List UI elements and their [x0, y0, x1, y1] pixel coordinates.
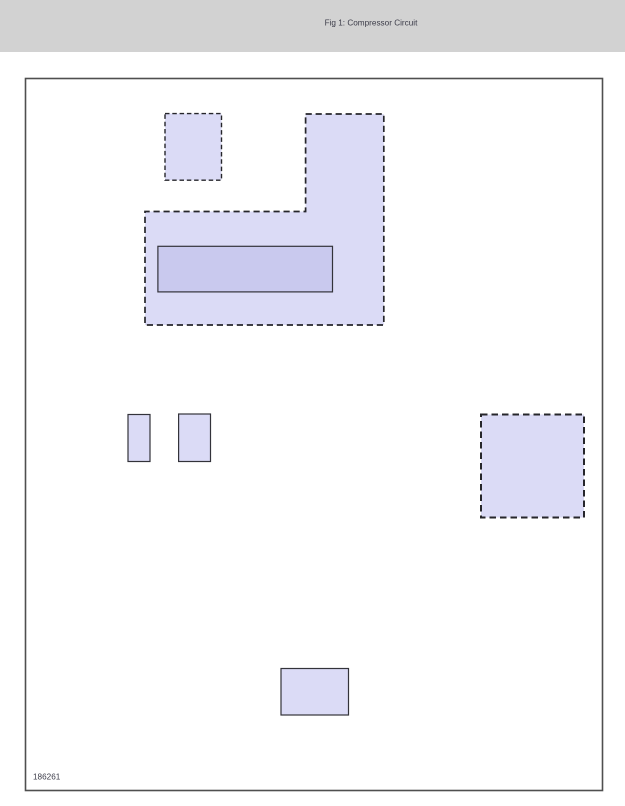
svg-text:186261: 186261 — [33, 773, 61, 782]
clutch box — [179, 414, 211, 462]
sensor box — [281, 669, 349, 716]
header bar — [0, 0, 625, 52]
relay inner box — [158, 246, 333, 292]
diode box — [128, 415, 150, 462]
svg-text:Fig 1: Compressor Circuit: Fig 1: Compressor Circuit — [325, 19, 419, 28]
fuse block left: underhood junction block top — [165, 114, 222, 181]
PCM box — [481, 415, 584, 518]
fuse block right + relay outer box (combined dashed region) — [145, 114, 384, 325]
